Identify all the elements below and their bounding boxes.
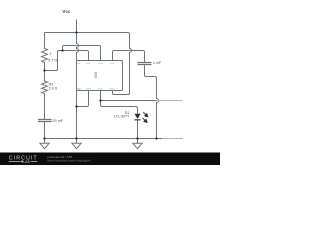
svg-text:http://circuitlab.com/c/vsqkgb: http://circuitlab.com/c/vsqkgby4 [48, 159, 91, 163]
svg-text:3.9 Ω: 3.9 Ω [49, 86, 58, 90]
svg-text:5.7 Ω: 5.7 Ω [48, 58, 57, 62]
svg-text:OUT: OUT [98, 88, 103, 90]
svg-text:LAB: LAB [23, 160, 30, 164]
svg-text:GND: GND [76, 88, 81, 90]
svg-text:VS: VS [77, 63, 81, 65]
svg-text:RST: RST [110, 88, 115, 90]
svg-text:THR: THR [98, 63, 103, 65]
svg-text:1: 1 [50, 52, 52, 56]
svg-text:555: 555 [93, 71, 98, 78]
svg-text:220 mF: 220 mF [51, 119, 64, 123]
svg-text:LTL-307Y: LTL-307Y [114, 115, 130, 119]
svg-text:CTL: CTL [110, 63, 115, 65]
svg-text:DIS: DIS [87, 63, 91, 65]
svg-text:1 mF: 1 mF [153, 61, 162, 65]
svg-text:TRG: TRG [86, 88, 91, 90]
svg-text:Vcc: Vcc [62, 9, 70, 14]
